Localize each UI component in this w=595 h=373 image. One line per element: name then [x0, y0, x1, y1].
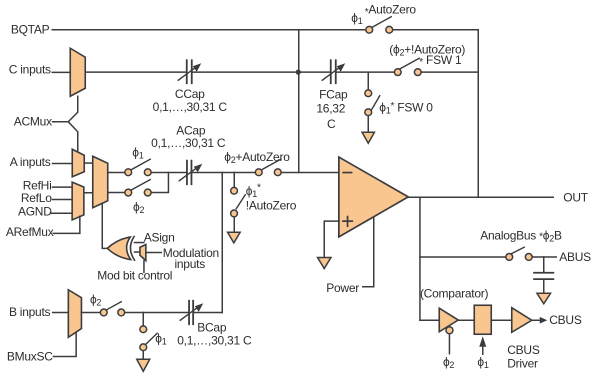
wire !AutoZero stem	[233, 172, 235, 187]
svg-text:*AutoZero: *AutoZero	[365, 2, 417, 18]
wire BCap to riser	[194, 311, 222, 313]
svg-text:Mod bit control: Mod bit control	[97, 268, 172, 282]
svg-text:ASign: ASign	[144, 230, 175, 244]
svg-text:ϕ2: ϕ2	[90, 293, 101, 308]
wire BCap riser junction	[221, 172, 223, 312]
mux RefMux	[72, 182, 84, 220]
ground (B)	[137, 359, 150, 371]
svg-text:ϕ1* FSW 0: ϕ1* FSW 0	[379, 100, 433, 115]
wire power	[363, 218, 374, 287]
switch phi1 (A) contacts	[125, 169, 132, 176]
svg-text:* FSW 1: * FSW 1	[419, 53, 462, 68]
svg-text:AGND: AGND	[18, 204, 52, 218]
ground (FSW0)	[362, 132, 374, 143]
svg-text:inputs: inputs	[174, 257, 205, 271]
svg-text:ARefMux: ARefMux	[6, 225, 54, 239]
wire opamp plus input	[324, 221, 339, 257]
wire xor bottom input	[135, 251, 140, 253]
svg-text:AnalogBus *ϕ2B: AnalogBus *ϕ2B	[480, 228, 562, 243]
op-amp U1	[339, 157, 408, 237]
wire RefMux to big mux	[84, 192, 93, 194]
mux BMux	[68, 290, 81, 338]
svg-text:0,1,…,30,31 C: 0,1,…,30,31 C	[151, 136, 226, 150]
op-amp plus sign	[343, 220, 352, 222]
wire latch clock arrow	[482, 344, 484, 354]
svg-text:A inputs: A inputs	[10, 155, 51, 169]
svg-text:ϕ2+AutoZero: ϕ2+AutoZero	[224, 150, 290, 165]
comparator clock bubble	[446, 327, 453, 334]
svg-text:BQTAP: BQTAP	[11, 23, 50, 37]
svg-text:ABUS: ABUS	[559, 250, 591, 264]
wire big mux phi2 row	[108, 192, 125, 194]
svg-text:CBUS: CBUS	[549, 313, 582, 327]
mux AMux	[72, 149, 84, 177]
wire AGND	[50, 212, 72, 214]
wire right vertical bus	[477, 30, 479, 198]
wire B switch to ground	[142, 351, 144, 360]
wire FSW0 to ground	[367, 116, 369, 133]
wire ABUS cap stem	[543, 257, 545, 272]
wire ARefMux select	[53, 216, 80, 233]
xor gate second arc	[130, 237, 134, 261]
ground (!AutoZero)	[228, 232, 241, 243]
CBUS driver triangle	[512, 308, 532, 333]
comparator triangle	[439, 308, 458, 332]
svg-text:B inputs: B inputs	[9, 305, 51, 319]
wire phi1 out to ACap	[151, 171, 186, 173]
capacitor ABUS	[534, 273, 553, 279]
mux CMux	[70, 48, 85, 96]
wire summing node vertical	[298, 30, 300, 173]
switch phi1 (A) blade	[130, 159, 150, 170]
wire FSW0 stem	[367, 72, 369, 89]
svg-text:!AutoZero: !AutoZero	[246, 198, 297, 212]
wire B ground stem	[142, 312, 144, 325]
svg-text:0,1,…,30,31 C: 0,1,…,30,31 C	[177, 333, 252, 347]
wire OUT	[408, 196, 553, 198]
switch FSW1 blade	[399, 58, 419, 69]
capacitor BCap	[180, 301, 203, 325]
wire C row to CCap	[85, 71, 186, 73]
wire comparator row	[420, 319, 439, 321]
latch rectangle	[474, 305, 491, 334]
capacitor ACap	[179, 161, 202, 185]
svg-text:Driver: Driver	[507, 356, 538, 370]
mux mod bit (small)	[140, 245, 146, 261]
svg-text:(Comparator): (Comparator)	[420, 287, 489, 301]
svg-text:ϕ1: ϕ1	[351, 11, 362, 26]
svg-text:BMuxSC: BMuxSC	[7, 349, 53, 363]
wire ASign input	[135, 242, 144, 244]
svg-text:OUT: OUT	[563, 190, 589, 204]
wire CCap to junction	[192, 71, 330, 73]
svg-text:ϕ1: ϕ1	[477, 355, 488, 370]
wire output vertical bus	[419, 197, 421, 320]
wire big mux phi1 row	[108, 171, 125, 173]
switch phi2 (A) blade	[130, 180, 150, 191]
switch phi1 (B) blade	[146, 333, 158, 344]
wire comparator to latch	[458, 319, 475, 321]
svg-text:Power: Power	[326, 281, 359, 295]
op-amp minus sign	[343, 172, 351, 174]
switch FSW0 blade	[372, 96, 380, 110]
wire B input	[53, 311, 69, 313]
svg-text:RefLo: RefLo	[21, 191, 52, 205]
svg-text:CCap: CCap	[175, 87, 205, 101]
svg-text:0,1,…,30,31 C: 0,1,…,30,31 C	[153, 100, 228, 114]
switch AnalogBus blade	[511, 247, 524, 254]
wire ABUS row	[420, 256, 505, 258]
svg-text:C: C	[327, 117, 336, 131]
wire driver output arrow	[532, 319, 541, 321]
svg-text:CBUS: CBUS	[507, 343, 540, 357]
wire FCap to FSW1	[336, 71, 397, 73]
wire RefHi	[52, 186, 72, 188]
junction dot	[296, 70, 301, 75]
switch phi1*!AutoZero blade	[236, 195, 245, 209]
wire BQTAP left segment	[52, 29, 365, 31]
wire mod bit select	[143, 261, 145, 273]
switch phi1*!AutoZero contacts	[231, 187, 238, 194]
wire cap to ground	[543, 279, 545, 293]
switch FSW1 contacts	[394, 69, 401, 76]
wire phi2 step up	[151, 172, 168, 192]
wire switch to ground	[233, 217, 235, 232]
wire BMuxSC select	[53, 333, 76, 356]
wire modulation input	[146, 252, 161, 254]
switch phi1 (B) contacts	[140, 326, 147, 333]
switch phi1*AutoZero contacts	[366, 26, 373, 33]
wire switch to ABUS	[532, 256, 556, 258]
switch phi2 (B) blade	[106, 302, 121, 310]
wire comparator clock	[448, 334, 450, 354]
wire ACMux to AMux	[68, 122, 78, 152]
mux A big	[93, 156, 108, 208]
wire B row to BCap	[125, 311, 189, 313]
wire ACMux select	[53, 96, 78, 122]
wire RefLo	[52, 199, 72, 201]
svg-text:BCap: BCap	[197, 320, 227, 334]
capacitor FCap	[322, 60, 345, 83]
switch phi2+AutoZero contacts	[255, 169, 262, 176]
svg-text:C inputs: C inputs	[9, 63, 51, 77]
switch phi2 (B) contacts	[100, 309, 107, 316]
switch AnalogBus contacts	[506, 254, 513, 261]
switch FSW0 contacts	[365, 90, 372, 97]
svg-text:ϕ2: ϕ2	[133, 200, 144, 215]
wire A input	[53, 163, 73, 165]
wire B mux out	[81, 311, 100, 313]
wire switch to opamp minus	[281, 171, 339, 173]
wire latch to driver	[491, 319, 511, 321]
svg-text:ϕ1: ϕ1	[132, 145, 143, 160]
svg-text:ϕ2: ϕ2	[443, 355, 454, 370]
xor gate ASign body	[107, 237, 131, 259]
wire ACap to opamp row	[192, 171, 254, 173]
switch phi2+AutoZero blade	[261, 159, 281, 170]
svg-text:ϕ1*: ϕ1*	[246, 182, 261, 199]
wire big mux select to xor	[102, 203, 107, 248]
ground (opamp plus)	[318, 257, 331, 268]
wire BQTAP right segment	[392, 29, 478, 31]
svg-text:FCap: FCap	[319, 88, 348, 102]
wire AMux to big mux	[84, 162, 93, 164]
svg-text:16,32: 16,32	[316, 102, 345, 116]
svg-text:ACMux: ACMux	[14, 114, 52, 128]
switch phi1*AutoZero blade	[371, 17, 391, 28]
capacitor CCap	[178, 60, 201, 83]
wire FSW1 to right bus	[421, 71, 478, 73]
svg-text:ϕ1: ϕ1	[155, 331, 166, 346]
wire C input	[52, 71, 70, 73]
ground (ABUS)	[537, 293, 551, 304]
switch phi2 (A) contacts	[125, 189, 132, 196]
